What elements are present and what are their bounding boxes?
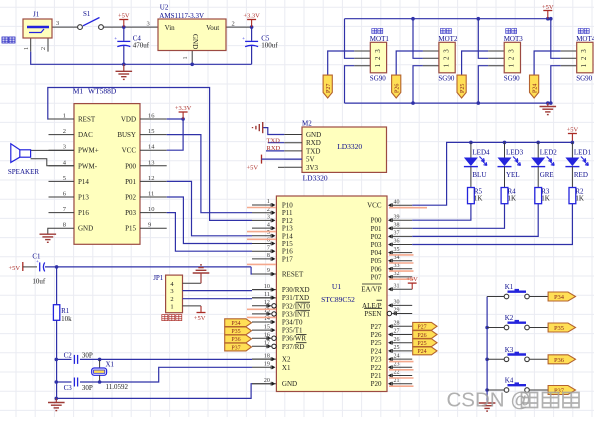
svg-text:P03: P03: [125, 209, 136, 217]
svg-text:P15: P15: [125, 225, 136, 233]
svg-text:SG90: SG90: [438, 75, 454, 83]
svg-text:+5V: +5V: [542, 4, 554, 11]
svg-text:LD3320: LD3320: [303, 174, 328, 183]
svg-text:K4: K4: [505, 377, 514, 385]
svg-text:2: 2: [508, 56, 516, 60]
svg-text:P16: P16: [78, 209, 89, 217]
svg-text:AMS1117-3.3V: AMS1117-3.3V: [159, 12, 204, 20]
svg-text:PSEN: PSEN: [364, 310, 381, 318]
svg-text:3: 3: [63, 144, 66, 151]
svg-text:10uf: 10uf: [32, 278, 46, 286]
svg-text:25: 25: [394, 345, 400, 351]
svg-text:3: 3: [56, 20, 59, 27]
svg-text:TXD: TXD: [267, 137, 281, 144]
svg-text:+: +: [36, 260, 39, 265]
svg-text:33: 33: [394, 263, 400, 269]
svg-text:P20: P20: [371, 380, 382, 388]
svg-text:19: 19: [264, 362, 270, 368]
svg-text:32: 32: [394, 271, 400, 277]
svg-text:30P: 30P: [82, 384, 93, 392]
svg-text:P24: P24: [533, 84, 539, 93]
svg-text:30: 30: [394, 300, 400, 306]
svg-text:5: 5: [63, 175, 66, 182]
svg-text:R1: R1: [61, 307, 70, 315]
svg-text:1K: 1K: [474, 195, 483, 203]
svg-text:P25: P25: [460, 84, 466, 93]
svg-text:17: 17: [264, 341, 270, 347]
svg-text:P22: P22: [371, 364, 382, 372]
svg-text:3: 3: [267, 215, 270, 221]
svg-text:3: 3: [147, 21, 150, 28]
svg-text:P25: P25: [417, 341, 426, 347]
svg-text:100uf: 100uf: [261, 42, 278, 50]
svg-text:P36: P36: [231, 337, 240, 343]
svg-text:18: 18: [264, 353, 270, 359]
svg-text:PWM-: PWM-: [78, 162, 98, 170]
svg-text:P23: P23: [371, 356, 382, 364]
svg-text:3: 3: [442, 49, 450, 53]
svg-text:8: 8: [267, 253, 270, 259]
svg-text:GND: GND: [191, 34, 199, 49]
svg-text:U1: U1: [332, 282, 341, 291]
svg-text:GND: GND: [282, 380, 297, 388]
svg-text:MOT1: MOT1: [370, 35, 390, 43]
svg-text:SG90: SG90: [576, 75, 592, 83]
svg-text:+: +: [114, 37, 117, 42]
svg-text:P24: P24: [417, 349, 426, 355]
svg-text:3: 3: [170, 288, 173, 295]
svg-text:10: 10: [264, 284, 270, 290]
svg-text:15: 15: [264, 324, 270, 330]
svg-text:11: 11: [264, 292, 270, 298]
svg-text:3V3: 3V3: [306, 164, 319, 172]
svg-text:34: 34: [394, 255, 400, 261]
svg-text:GND: GND: [78, 225, 93, 233]
svg-text:TXD: TXD: [306, 147, 320, 155]
svg-text:P27: P27: [326, 84, 332, 93]
svg-text:2: 2: [170, 296, 173, 303]
svg-text:P07: P07: [371, 273, 382, 281]
svg-text:P36/WR: P36/WR: [282, 335, 306, 343]
svg-text:26: 26: [394, 337, 400, 343]
svg-text:1: 1: [508, 63, 516, 67]
svg-text:C2: C2: [64, 352, 73, 360]
svg-text:X1: X1: [282, 364, 291, 372]
svg-text:MOT4: MOT4: [576, 35, 594, 43]
svg-text:P27: P27: [417, 325, 426, 331]
svg-text:39: 39: [394, 214, 400, 220]
svg-text:+5V: +5V: [9, 265, 21, 272]
svg-text:P03: P03: [371, 241, 382, 249]
svg-text:P01: P01: [371, 225, 382, 233]
svg-text:PWM+: PWM+: [78, 147, 99, 155]
svg-text:40: 40: [394, 199, 400, 205]
svg-text:RXD: RXD: [267, 145, 281, 152]
svg-text:P21: P21: [371, 372, 382, 380]
svg-text:EA/VP: EA/VP: [361, 286, 381, 294]
svg-text:1: 1: [580, 63, 588, 67]
svg-text:35: 35: [394, 247, 400, 253]
svg-text:12: 12: [148, 175, 155, 182]
svg-text:RESET: RESET: [282, 271, 304, 279]
svg-text:GND: GND: [306, 131, 321, 139]
svg-text:P04: P04: [371, 249, 382, 257]
svg-text:SPEAKER: SPEAKER: [8, 168, 39, 176]
svg-text:1K: 1K: [541, 195, 550, 203]
svg-text:38: 38: [394, 223, 400, 229]
svg-text:P35/T1: P35/T1: [282, 327, 303, 335]
svg-text:9: 9: [267, 268, 270, 274]
svg-text:24: 24: [394, 353, 400, 359]
svg-text:10: 10: [148, 206, 155, 213]
svg-text:27: 27: [394, 329, 400, 335]
svg-text:15: 15: [148, 128, 155, 135]
svg-text:P37: P37: [231, 345, 240, 351]
svg-text:S1: S1: [83, 10, 91, 18]
svg-text:+3.3V: +3.3V: [175, 105, 192, 112]
svg-text:8: 8: [63, 222, 66, 229]
svg-text:K1: K1: [505, 283, 514, 291]
svg-text:P02: P02: [371, 233, 382, 241]
svg-text:P13: P13: [78, 194, 89, 202]
svg-text:5V: 5V: [306, 156, 315, 164]
svg-text:+: +: [242, 37, 245, 42]
svg-text:3: 3: [374, 49, 382, 53]
svg-text:DAC: DAC: [78, 131, 93, 139]
svg-text:MOT2: MOT2: [438, 35, 458, 43]
svg-text:+5V: +5V: [194, 315, 206, 322]
svg-text:P31/TXD: P31/TXD: [282, 294, 309, 302]
svg-text:P02: P02: [125, 194, 136, 202]
svg-text:2: 2: [374, 56, 382, 60]
svg-text:29: 29: [394, 308, 400, 314]
svg-text:LED3: LED3: [506, 148, 524, 156]
svg-text:M2: M2: [302, 120, 312, 128]
svg-text:RXD: RXD: [306, 139, 321, 147]
svg-text:14: 14: [148, 144, 155, 151]
svg-text:22: 22: [394, 370, 400, 376]
svg-text:1: 1: [267, 199, 270, 205]
svg-text:1K: 1K: [508, 195, 517, 203]
svg-text:RED: RED: [574, 171, 588, 179]
svg-text:+3.3V: +3.3V: [243, 13, 260, 20]
svg-text:13: 13: [148, 159, 155, 166]
svg-text:P05: P05: [371, 257, 382, 265]
svg-text:1: 1: [182, 56, 189, 59]
svg-text:YEL: YEL: [506, 171, 520, 179]
svg-text:Vout: Vout: [206, 24, 219, 32]
svg-text:P26: P26: [417, 333, 426, 339]
svg-text:P35: P35: [554, 325, 564, 332]
svg-text:1: 1: [23, 47, 30, 50]
svg-text:VCC: VCC: [367, 202, 382, 210]
svg-text:11: 11: [148, 191, 154, 198]
svg-text:10k: 10k: [61, 315, 72, 323]
svg-text:P00: P00: [125, 162, 136, 170]
svg-text:1: 1: [374, 63, 382, 67]
svg-text:P17: P17: [282, 255, 293, 263]
svg-text:+5V: +5V: [118, 13, 130, 20]
svg-text:LED2: LED2: [540, 148, 558, 156]
svg-text:P37/RD: P37/RD: [282, 343, 305, 351]
svg-text:VDD: VDD: [121, 116, 136, 124]
svg-text:LED1: LED1: [574, 148, 592, 156]
svg-text:Vin: Vin: [165, 24, 176, 32]
svg-text:+5V: +5V: [567, 127, 579, 134]
svg-text:2: 2: [40, 47, 47, 50]
svg-text:VCC: VCC: [122, 147, 137, 155]
svg-text:J1: J1: [33, 11, 40, 19]
svg-text:2: 2: [580, 56, 588, 60]
svg-text:LD3320: LD3320: [337, 142, 362, 151]
svg-text:+5V: +5V: [406, 276, 418, 283]
svg-text:P36: P36: [554, 357, 565, 364]
svg-text:16: 16: [264, 332, 270, 338]
svg-text:P32/INT0: P32/INT0: [282, 302, 311, 310]
svg-text:470uf: 470uf: [133, 42, 150, 50]
svg-text:4: 4: [267, 222, 270, 228]
svg-text:CSDN @: CSDN @: [447, 389, 532, 412]
svg-text:P24: P24: [371, 347, 382, 355]
svg-text:7: 7: [267, 245, 270, 251]
svg-text:U2: U2: [160, 4, 169, 12]
svg-text:2: 2: [442, 56, 450, 60]
svg-text:P26: P26: [371, 331, 382, 339]
svg-text:P25: P25: [371, 339, 382, 347]
svg-text:36: 36: [394, 239, 400, 245]
svg-text:BUSY: BUSY: [117, 131, 136, 139]
svg-text:P30/RXD: P30/RXD: [282, 286, 310, 294]
svg-text:2: 2: [63, 128, 66, 135]
svg-text:2: 2: [232, 21, 235, 28]
svg-text:K3: K3: [505, 346, 514, 354]
svg-text:SG90: SG90: [370, 75, 386, 83]
svg-text:JP1: JP1: [153, 274, 164, 282]
svg-text:16: 16: [148, 113, 155, 120]
svg-text:GRE: GRE: [540, 171, 554, 179]
svg-text:11.0592: 11.0592: [106, 383, 129, 391]
svg-text:C1: C1: [32, 253, 41, 261]
svg-text:+5V: +5V: [247, 165, 259, 172]
svg-text:P14: P14: [78, 178, 89, 186]
svg-text:K2: K2: [505, 314, 514, 322]
svg-text:SG90: SG90: [504, 75, 520, 83]
svg-text:X2: X2: [282, 356, 291, 364]
svg-text:C3: C3: [64, 384, 73, 392]
svg-text:20: 20: [264, 378, 270, 384]
svg-text:P34/T0: P34/T0: [282, 319, 303, 327]
svg-text:28: 28: [394, 321, 400, 327]
svg-text:P01: P01: [125, 178, 136, 186]
svg-text:P35: P35: [231, 329, 240, 335]
svg-text:1: 1: [170, 303, 173, 310]
svg-text:P34: P34: [231, 321, 240, 327]
svg-text:1K: 1K: [575, 195, 584, 203]
svg-text:9: 9: [148, 222, 151, 229]
svg-text:P33/INT1: P33/INT1: [282, 310, 311, 318]
svg-text:X1: X1: [106, 361, 115, 369]
svg-text:P26: P26: [395, 84, 401, 93]
svg-text:MOT3: MOT3: [504, 35, 524, 43]
svg-text:STC89C52: STC89C52: [321, 295, 355, 304]
svg-text:31: 31: [394, 283, 400, 289]
svg-text:LED4: LED4: [472, 148, 490, 156]
svg-text:REST: REST: [78, 116, 96, 124]
svg-text:12: 12: [264, 300, 270, 306]
svg-text:3: 3: [580, 49, 588, 53]
svg-text:P06: P06: [371, 265, 382, 273]
svg-text:P27: P27: [371, 323, 382, 331]
svg-text:30P: 30P: [82, 352, 93, 360]
svg-text:BLU: BLU: [472, 171, 486, 179]
svg-text:37: 37: [394, 231, 400, 237]
svg-text:P00: P00: [371, 217, 382, 225]
svg-text:P34: P34: [554, 294, 565, 301]
svg-text:3: 3: [508, 49, 516, 53]
svg-text:1: 1: [63, 113, 66, 120]
svg-text:1: 1: [442, 63, 450, 67]
